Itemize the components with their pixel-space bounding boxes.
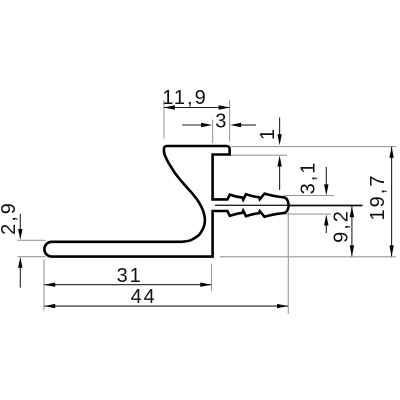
spike center line inside (215, 204, 288, 206)
dimension 2,9 bottom tail (19, 268, 21, 288)
extension line right of 11,9 and 3 (229, 100, 231, 141)
extension line left of 31 and 44 (43, 260, 45, 311)
spike center line extension (9,2 reference) (289, 205, 363, 207)
dimension 3 right tail (240, 124, 256, 126)
svg-text:44: 44 (131, 286, 157, 308)
dimension 3 arrow right (pointing left) (230, 123, 241, 127)
dimension 19,7 arrow bottom (pointing down) (389, 245, 393, 256)
extension line left of 11,9 (163, 100, 165, 138)
dimension 1 arrow top (pointing down) (277, 134, 281, 145)
dimension 44 line (44, 305, 288, 307)
extension line right of 44 (spike tip down) (287, 212, 289, 314)
svg-text:3,1: 3,1 (298, 161, 320, 195)
extension line profile bottom (for 9,2 and 19,7) (220, 256, 396, 258)
dimension 9,2 arrow top (pointing up) (350, 206, 354, 217)
dimension 3,1 arrow top (pointing down) (324, 184, 328, 195)
dimension 31 arrow right (200, 283, 211, 287)
dimension 3 left tail (182, 124, 203, 126)
svg-text:2,9: 2,9 (0, 201, 20, 235)
extension line spike bottom (for 3,1) (284, 213, 331, 215)
dimension 31 line (44, 284, 211, 286)
svg-text:19,7: 19,7 (367, 174, 389, 221)
extension line right of 31 (stem left face down) (211, 264, 213, 292)
svg-text:11,9: 11,9 (162, 87, 207, 109)
dimension 11,9 arrow right (219, 105, 230, 109)
dimension 1 top tail (279, 118, 281, 137)
dimension 3,1 top tail (325, 167, 327, 185)
dimension 1 bottom tail (279, 167, 281, 191)
dimension 9,2 line (351, 206, 353, 256)
dimension 9,2 arrow bottom (pointing down) (350, 245, 354, 256)
extension line flange underside (for 1) (231, 154, 287, 156)
svg-text:31: 31 (117, 265, 143, 287)
extension line left of 3 (stem left face) (212, 120, 214, 144)
dimension 11,9 arrow left (164, 105, 175, 109)
extension line top flange top (for 1 and 19,7) (231, 146, 396, 148)
svg-text:1: 1 (257, 127, 279, 140)
dimension 19,7 line (391, 147, 393, 257)
dimension 3 arrow left (pointing right) (201, 123, 212, 127)
extension line 2,9 bottom (18, 256, 46, 258)
dimension 19,7 arrow top (pointing up) (389, 147, 393, 158)
dimension 1 arrow bottom (pointing up) (277, 156, 281, 167)
dimension 31 arrow left (44, 283, 55, 287)
profile outline (44, 146, 288, 257)
svg-text:3: 3 (215, 111, 228, 133)
dimension 2,9 top tail (19, 214, 21, 230)
dimension 44 arrow right (277, 304, 288, 308)
extension line 2,9 top (18, 239, 46, 241)
svg-text:9,2: 9,2 (331, 209, 353, 243)
dimension 44 arrow left (44, 304, 55, 308)
extension line spike top (for 3,1) (284, 195, 334, 197)
dimension 3,1 bottom tail (325, 226, 327, 234)
dimension 2,9 arrow bottom (pointing up) (18, 257, 22, 268)
dimension 3,1 arrow bottom (pointing up) (324, 215, 328, 226)
dimension 2,9 arrow top (pointing down) (18, 229, 22, 240)
dimension 11,9 line (164, 107, 230, 109)
